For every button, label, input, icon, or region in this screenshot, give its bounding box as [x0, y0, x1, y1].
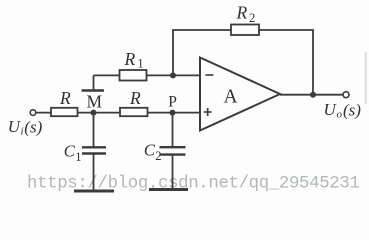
svg-text:C: C	[64, 142, 76, 161]
svg-text:R: R	[236, 2, 248, 22]
svg-text:(s): (s)	[343, 101, 361, 120]
svg-text:A: A	[224, 86, 238, 107]
svg-text:i: i	[21, 125, 24, 137]
svg-text:R: R	[129, 88, 141, 108]
svg-text:R: R	[59, 88, 71, 108]
svg-text:2: 2	[249, 11, 255, 25]
svg-text:M: M	[87, 91, 103, 111]
svg-text:1: 1	[137, 57, 143, 71]
svg-text:R: R	[124, 49, 136, 69]
svg-text:C: C	[144, 141, 156, 160]
svg-text:(s): (s)	[24, 118, 42, 137]
svg-text:U: U	[324, 100, 338, 119]
svg-text:P: P	[168, 93, 177, 110]
svg-text:o: o	[337, 109, 343, 121]
svg-text:1: 1	[75, 150, 81, 164]
svg-text:2: 2	[155, 149, 161, 163]
